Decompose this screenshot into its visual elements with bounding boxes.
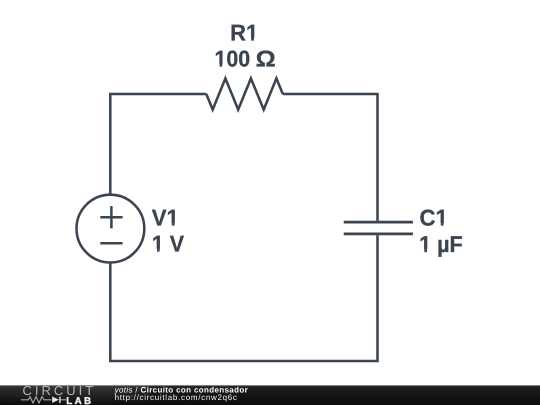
white patches to square the '1' glyph feet (target font has footless 1) <box>152 38 448 253</box>
capacitor C1 <box>344 222 413 234</box>
V1 minus sign <box>100 242 122 245</box>
V1 plus sign <box>100 206 122 228</box>
logo resistor squiggle wire <box>21 397 52 403</box>
svg-text:100: 100 <box>214 45 250 71</box>
logo wire from diode to LAB <box>61 399 67 401</box>
wire top-left from node to resistor <box>110 94 206 194</box>
resistor R1 <box>206 78 282 109</box>
wire capacitor to bottom rail <box>110 235 377 361</box>
svg-text:http://circuitlab.com/cnw2q6c: http://circuitlab.com/cnw2q6c <box>115 393 238 402</box>
svg-text:Ω: Ω <box>256 46 276 72</box>
voltage source V1 <box>77 195 145 263</box>
logo diode symbol <box>52 397 59 403</box>
footer bar <box>0 385 540 405</box>
footer logo glow <box>0 385 150 405</box>
svg-text:1 µF: 1 µF <box>419 231 463 257</box>
svg-text:LAB: LAB <box>66 396 93 405</box>
wire resistor to top-right corner <box>283 94 378 221</box>
